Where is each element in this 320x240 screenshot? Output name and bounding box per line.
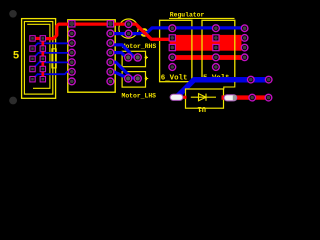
battery pad bbox=[213, 25, 220, 32]
wire blue connector row5 to IC pin6 bbox=[33, 72, 72, 79]
header pad bbox=[241, 44, 248, 51]
battery square pad bbox=[169, 45, 175, 51]
battery square pad bbox=[169, 35, 175, 41]
Regulator underline bbox=[169, 17, 235, 19]
IC outline bbox=[68, 20, 115, 92]
connector pad bbox=[30, 56, 35, 61]
battery square pad bbox=[213, 45, 219, 51]
diode symbol cathode bar bbox=[205, 94, 207, 101]
svg-text:6_Volt: 6_Volt bbox=[161, 75, 188, 83]
header pad bbox=[241, 25, 248, 32]
red rail 5V output bbox=[170, 55, 242, 60]
motor circle pad top bbox=[125, 21, 132, 28]
IC pad bbox=[107, 59, 114, 66]
svg-text:U1: U1 bbox=[198, 104, 206, 112]
U1 SMD pad left bbox=[170, 94, 183, 100]
header pad bbox=[241, 35, 248, 42]
motor terminal pad bbox=[125, 75, 132, 82]
IC pad bbox=[68, 30, 75, 37]
connector pad bbox=[30, 46, 35, 51]
connector pad bbox=[40, 36, 45, 41]
wire blue IC to Motor_RHS pad1 bbox=[110, 45, 137, 57]
IC pad bbox=[107, 30, 114, 37]
motor terminal pad bbox=[125, 54, 132, 61]
IC pin1 square pad bbox=[107, 21, 113, 27]
connector pad bbox=[30, 66, 35, 71]
connector pad bbox=[40, 77, 45, 82]
IC pad bbox=[68, 78, 75, 85]
battery box 5_Volt bbox=[202, 20, 235, 81]
battery pad bbox=[213, 64, 220, 71]
red power rail block 6V/5V bbox=[170, 35, 242, 51]
wire blue IC to Motor_RHS pad2 bbox=[110, 53, 128, 58]
connector pad bbox=[40, 46, 45, 51]
diode symbol line bbox=[191, 96, 216, 98]
wire blue connector row3 to IC pin4 bbox=[33, 53, 72, 59]
mounting hole top-left bbox=[9, 10, 17, 18]
wire red connector right column chain bbox=[41, 38, 44, 79]
IC pad bbox=[107, 78, 114, 85]
battery square pad bbox=[213, 35, 219, 41]
Motor_RHS box bbox=[122, 51, 145, 66]
wire red U1 to output pads bbox=[222, 95, 269, 99]
wire blue IC to Motor_LHS pad2 bbox=[110, 62, 137, 78]
IC pad bbox=[107, 68, 114, 75]
wire red U1 left stub bbox=[181, 96, 187, 99]
wire red connector row1 bridge bbox=[33, 37, 43, 40]
connector pad bbox=[30, 36, 35, 41]
svg-text:Motor_LHS: Motor_LHS bbox=[122, 92, 157, 99]
connector pad bbox=[40, 66, 45, 71]
wire blue connector row2 to IC pin3 bbox=[33, 43, 72, 48]
battery pad bbox=[169, 64, 176, 71]
connector outline middle bbox=[24, 22, 52, 95]
connector polarization tab bbox=[52, 49, 56, 68]
battery pad bbox=[169, 25, 176, 32]
bus via pad bbox=[248, 76, 255, 83]
IC pad bbox=[68, 49, 75, 56]
Motor_LHS box bbox=[122, 72, 145, 88]
bus via pad bbox=[265, 76, 272, 83]
IC pin1 square pad bbox=[69, 21, 75, 27]
output pad bbox=[249, 94, 256, 101]
motor terminal pad bbox=[134, 75, 141, 82]
wire yellow stub box2 to U1 bbox=[224, 82, 235, 89]
IC pad bbox=[68, 59, 75, 66]
IC pad bbox=[107, 49, 114, 56]
wire blue diode to bus bbox=[177, 80, 269, 98]
svg-text:Regulator: Regulator bbox=[170, 12, 205, 19]
wire blue IC to Motor_LHS pad1 bbox=[110, 72, 128, 79]
battery pad bbox=[169, 54, 176, 61]
battery box 6_Volt bbox=[160, 20, 192, 81]
connector pad bbox=[40, 56, 45, 61]
motor terminal pad bbox=[134, 54, 141, 61]
connector outline inner bbox=[27, 24, 50, 88]
wire blue IC pin2 to motor circle to headers bbox=[110, 28, 244, 34]
U1 SMD pad right bbox=[224, 95, 237, 101]
motor circle pad bottom bbox=[125, 30, 132, 37]
mounting hole bottom-left bbox=[9, 97, 17, 105]
Motor_RHS plus mark bbox=[145, 56, 148, 59]
motor wire hole circle bbox=[119, 19, 138, 38]
diode U1 outline bbox=[186, 89, 224, 108]
IC pad bbox=[68, 68, 75, 75]
board background bbox=[0, 0, 282, 122]
wire red main top power trace bbox=[43, 24, 171, 39]
wire blue connector row4 to IC pin5 bbox=[33, 62, 72, 69]
battery pad bbox=[213, 54, 220, 61]
IC pad bbox=[107, 40, 114, 47]
IC pad bbox=[68, 40, 75, 47]
svg-text:5: 5 bbox=[13, 50, 20, 62]
Motor_LHS plus mark bbox=[145, 77, 148, 80]
wire red diagonal to 6V pad overdraw bbox=[137, 26, 170, 40]
header pad bbox=[241, 54, 248, 61]
connector outline outer bbox=[22, 19, 56, 99]
diode symbol triangle bbox=[199, 94, 207, 101]
connector pad bbox=[30, 77, 35, 82]
output pad bbox=[265, 94, 272, 101]
